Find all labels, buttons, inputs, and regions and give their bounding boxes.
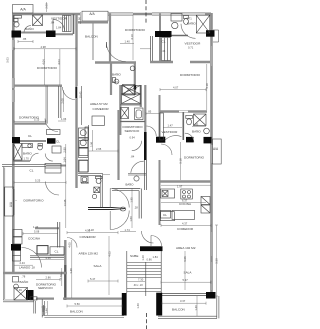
wall vestidor right x73.5 <box>73 14 75 34</box>
svg-text:1.06: 1.06 <box>61 117 67 121</box>
dimline 3.37 balconR <box>162 302 206 305</box>
wall top outer (gray band) <box>12 13 80 16</box>
dimline .85 corridor <box>146 112 160 115</box>
cocina door arc <box>67 238 77 248</box>
svg-text:1.43: 1.43 <box>113 80 119 84</box>
svg-text:2.74: 2.74 <box>59 274 63 280</box>
wall kitchen bottom y273 <box>3 272 67 274</box>
lavatory mid counter <box>128 174 146 176</box>
dimline 1.40 balconR vert <box>196 296 198 316</box>
svg-text:VESTIDOR: VESTIDOR <box>185 42 202 46</box>
svg-text:SERVICIO: SERVICIO <box>38 286 53 290</box>
svg-text:COCINA: COCINA <box>28 237 41 241</box>
stairs side walls <box>127 251 161 293</box>
stairs center divider <box>145 262 147 296</box>
wall y161 bath bottom short <box>13 160 30 162</box>
svg-text:AREA 102 M2: AREA 102 M2 <box>176 246 196 250</box>
column black comedor right wall <box>206 292 216 299</box>
column black top-right <box>206 30 215 37</box>
kitchen CL box <box>50 247 64 255</box>
dimline 5.25 <box>14 181 66 184</box>
wall central y121.5 horiz <box>120 121 145 123</box>
svg-text:CL: CL <box>30 169 34 173</box>
dimline 1.40 top <box>120 42 134 44</box>
dimline 4.37 <box>161 224 211 227</box>
dimline vert x59.9 <box>59 49 61 85</box>
svg-text:COMEDOR: COMEDOR <box>80 235 97 239</box>
dimline 1.45 bathR <box>192 126 206 128</box>
dimline x61.8 vert <box>61 268 63 286</box>
bath TR shower X tall <box>196 15 210 33</box>
kitchen counter left strip <box>85 127 89 140</box>
svg-text:AREA 57 M2: AREA 57 M2 <box>90 102 108 106</box>
svg-text:1.47: 1.47 <box>168 124 174 128</box>
dimline 2.65 mid <box>88 150 118 153</box>
small box on wall bottom-left <box>30 297 37 300</box>
corridor cabinet <box>52 146 61 153</box>
corridor door arc 2 <box>45 154 53 162</box>
wall R balcony top y294.5 <box>162 294 206 296</box>
wall mid small-bath box <box>78 174 103 207</box>
kitchen TL fridge col <box>13 230 22 237</box>
wall thin x46.5 dorm2 right <box>46 86 47 124</box>
bath serv toilet <box>14 284 19 289</box>
bath M sink <box>130 66 135 71</box>
wall mid-bath left x111 <box>110 63 112 96</box>
svg-text:4.04: 4.04 <box>42 59 46 65</box>
svg-text:A/A: A/A <box>213 147 219 151</box>
svg-text:3.37: 3.37 <box>180 299 186 303</box>
svg-text:1.49: 1.49 <box>17 288 23 292</box>
wall R balcony rails <box>158 316 217 318</box>
svg-text:0.94: 0.94 <box>130 136 136 140</box>
sala big door arc <box>106 42 126 62</box>
wall TR vestidor bottom y62 <box>150 61 173 63</box>
column black kitchen left y244 <box>11 244 21 251</box>
wall L mid-bath top y62.5 <box>95 61 136 63</box>
door leaf dark at x76 y87-98 <box>75 87 77 99</box>
dimline 7.30 stair <box>127 280 145 282</box>
wall WC top y189.6 <box>112 189 140 191</box>
svg-text:BAÑO: BAÑO <box>187 20 196 25</box>
dimline x133 vert dorm TC <box>132 15 134 61</box>
svg-text:VESTIDOR: VESTIDOR <box>162 130 179 134</box>
vestidor2 closet hatch <box>160 113 164 140</box>
column black vestidor-R corner <box>156 137 165 143</box>
svg-text:A/A: A/A <box>89 12 95 16</box>
vestidor2 door arc <box>165 133 181 144</box>
svg-text:1.20: 1.20 <box>141 255 145 261</box>
svg-text:COMEDOR: COMEDOR <box>93 107 110 111</box>
svg-text:BALCON: BALCON <box>85 34 98 38</box>
wall corridor left lower <box>144 160 146 190</box>
hall CL closet <box>161 212 175 221</box>
bath L2 door arc <box>31 153 39 161</box>
window left wall lower <box>12 189 15 215</box>
entry door arc upper <box>110 189 129 208</box>
wall dorm1 bottom y85.6 <box>14 84 62 86</box>
A/A platform right exterior <box>213 139 222 164</box>
svg-text:0.71: 0.71 <box>187 17 193 21</box>
svg-text:--: -- <box>15 198 17 202</box>
bath R sink <box>204 128 210 134</box>
svg-text:1.43: 1.43 <box>33 225 39 229</box>
svg-text:1.44: 1.44 <box>44 308 48 314</box>
svg-text:BALCON: BALCON <box>172 307 185 311</box>
wall top window band right <box>152 13 211 15</box>
wall top-middle balcony corner x110 <box>109 14 111 63</box>
wall central column mid x140.8 <box>140 85 142 107</box>
kitchen counter line <box>30 256 64 257</box>
svg-text:CL: CL <box>163 213 167 217</box>
svg-text:5.08: 5.08 <box>34 230 40 234</box>
svg-text:.28: .28 <box>134 205 138 209</box>
wall servicio bottom y299 <box>36 298 54 300</box>
dimline 5.08 <box>23 232 58 235</box>
dimline .85 TL <box>18 40 33 43</box>
column black bath servicio y290 <box>26 290 34 300</box>
appliance fridge col x80 <box>79 141 88 148</box>
svg-text:BAÑO: BAÑO <box>25 26 34 31</box>
dorm R door arc <box>161 144 172 155</box>
svg-text:3.06: 3.06 <box>89 141 93 147</box>
svg-text:COCINA: COCINA <box>179 202 192 206</box>
wall R dorm bottom y181.5 <box>159 180 211 182</box>
dimline 5.37 <box>161 281 211 284</box>
comedor table <box>92 116 104 126</box>
svg-text:1.84: 1.84 <box>153 255 159 259</box>
toilet small mid room <box>120 207 126 211</box>
wall R bath mid x183.3 <box>182 112 184 140</box>
svg-text:4.07: 4.07 <box>173 86 179 90</box>
svg-text:3.48: 3.48 <box>69 268 73 274</box>
column black central dark tick <box>134 85 136 90</box>
servicio door arc 2 <box>132 141 142 151</box>
svg-text:BAÑO: BAÑO <box>112 72 121 77</box>
dimline x185 vert areaR <box>184 251 186 290</box>
servicio toilet X <box>121 108 129 119</box>
tick marks top-left dims <box>47 2 81 24</box>
dimline x206.8 vert <box>206 64 208 110</box>
svg-text:1.84: 1.84 <box>56 26 62 30</box>
servicio door arc 3 <box>131 161 144 173</box>
svg-text:0.71: 0.71 <box>188 45 194 49</box>
column black mid-right y137 <box>186 137 194 143</box>
bath serv shower X <box>14 288 28 301</box>
dimline x112.5 vert <box>108 236 110 295</box>
bath TR door arc <box>181 24 196 39</box>
wall balcony top-middle gray <box>78 21 108 23</box>
svg-text:.85: .85 <box>23 37 27 41</box>
svg-text:13.46: 13.46 <box>63 199 67 206</box>
svg-text:.84: .84 <box>51 21 55 25</box>
svg-text:SALA: SALA <box>94 264 103 268</box>
dimline vert x44.6 <box>44 49 46 85</box>
dorm3 door arc <box>46 182 60 196</box>
wall right outer <box>210 13 213 296</box>
balcony TM divider line <box>92 24 94 61</box>
wall central column left x120.3 <box>119 85 121 135</box>
wall right unit west lower <box>159 160 161 225</box>
wall right unit west x160 top <box>159 14 161 64</box>
drain symbol bottom-left <box>42 305 46 315</box>
wall corridor x59.5 <box>59 86 61 118</box>
svg-text:5.15: 5.15 <box>34 118 40 122</box>
svg-text:1.40: 1.40 <box>194 305 198 311</box>
dimline 1.97 R <box>161 184 211 186</box>
svg-text:5.37: 5.37 <box>183 278 189 282</box>
dashed section line bottom <box>146 313 148 329</box>
bath TL vanity <box>14 16 22 19</box>
wall vertical x58.5 kitchen <box>58 222 60 248</box>
svg-text:1.40: 1.40 <box>125 39 131 43</box>
servicio door arc 1 <box>146 126 156 136</box>
svg-text:10.43: 10.43 <box>79 91 83 98</box>
dimline 1.06 <box>58 120 66 122</box>
kitchen R fridge boxes <box>201 197 210 205</box>
dimline x180.5 vert dormR <box>180 142 182 180</box>
dimline x92.3 vert <box>91 130 93 151</box>
column black right wall y137 <box>204 137 212 144</box>
small bath mid fixtures <box>94 187 100 193</box>
svg-text:CL: CL <box>162 40 166 44</box>
bath TL toilet <box>14 19 19 22</box>
svg-text:.78: .78 <box>22 275 26 279</box>
dimline 1.74 foyer <box>120 231 136 233</box>
svg-text:DORMITORIO: DORMITORIO <box>37 66 58 70</box>
svg-text:1.74: 1.74 <box>125 228 131 232</box>
dimline x65.8 vert long <box>65 144 67 228</box>
wall WC right x140 <box>139 189 141 219</box>
svg-text:CL: CL <box>28 134 32 138</box>
dimline 2.43 <box>14 264 33 266</box>
svg-text:SUBE: SUBE <box>130 254 138 258</box>
dimline x132 vert foyer <box>131 188 133 228</box>
dimline 2.86 <box>36 278 60 281</box>
wall right unit west mid <box>159 95 161 142</box>
dimline 10.43 guide <box>81 86 83 125</box>
svg-text:.84: .84 <box>131 155 135 159</box>
svg-text:LAVADO: LAVADO <box>19 265 31 269</box>
dimline x71.8 vert <box>71 240 73 298</box>
bath TL shower X <box>33 15 43 26</box>
kitchen R counter sink <box>161 189 175 198</box>
svg-text:DORMITORIO: DORMITORIO <box>125 28 146 32</box>
wall balcony-left rail <box>42 299 44 318</box>
A/A box top-middle <box>82 11 108 21</box>
wall TR bath bottom y35.5 <box>165 35 188 37</box>
dimline .46 TR <box>140 48 151 50</box>
top-right balcony ledge <box>213 30 219 42</box>
svg-text:BAÑO: BAÑO <box>126 181 135 186</box>
svg-text:A/A: A/A <box>20 8 26 12</box>
column black top-left bath <box>12 31 22 38</box>
svg-text:1.85: 1.85 <box>130 197 134 203</box>
svg-text:DORMITORIO: DORMITORIO <box>180 73 201 77</box>
vestidor TL closet hatch <box>63 16 72 32</box>
kitchen R counter low <box>172 210 195 219</box>
dimline 1.44 <box>46 301 48 315</box>
svg-text:4.98: 4.98 <box>41 45 47 49</box>
svg-text:0.86: 0.86 <box>147 258 153 262</box>
dashed section line top <box>145 0 147 24</box>
wall y141 left bath top <box>19 140 46 142</box>
hall door arc low <box>142 231 154 243</box>
wall vertical x65.5 servicio/sala <box>64 240 66 265</box>
column black left y137 <box>12 137 20 143</box>
wall dorm2 bottom y123.6 <box>14 122 46 124</box>
svg-text:DORMITORIO: DORMITORIO <box>184 155 205 159</box>
bath R toilet <box>186 115 193 118</box>
wall bottom-left unit bottom <box>3 300 34 302</box>
svg-text:4.37: 4.37 <box>182 221 188 225</box>
wall corner piece bottom-left <box>34 300 36 314</box>
wall entry bar y208.5 <box>88 208 125 210</box>
svg-text:4.10: 4.10 <box>130 34 134 40</box>
vestidor TL door arc <box>53 20 65 32</box>
wall top-left bath bottom y32.5 <box>21 32 46 34</box>
svg-text:4.50: 4.50 <box>85 229 91 233</box>
svg-text:5.47: 5.47 <box>90 277 96 281</box>
svg-text:2.86: 2.86 <box>46 276 52 280</box>
wall central y104.8 horiz <box>120 104 141 106</box>
svg-text:.90: .90 <box>78 17 82 21</box>
kitchen stove box <box>37 246 48 254</box>
dimline 6.37 <box>161 201 206 203</box>
wall left outer <box>12 13 15 166</box>
svg-text:.85: .85 <box>148 110 152 114</box>
bath L2 toilet <box>38 145 43 150</box>
wall y165 full divider <box>2 164 46 166</box>
wall TR dorm bottom y111.5 <box>159 110 207 112</box>
wall left lower outer <box>12 167 15 274</box>
wall mid-bath right x134.8 <box>134 63 136 95</box>
servicio boiler <box>135 108 144 120</box>
kitchen R stove <box>181 189 193 199</box>
bath M shower X <box>123 85 135 96</box>
bath R door arc <box>185 133 194 142</box>
stair X box upper <box>122 86 141 95</box>
svg-text:4.05: 4.05 <box>108 251 112 257</box>
svg-text:COMEDOR: COMEDOR <box>177 227 194 231</box>
dimline 5.47 sala <box>88 280 118 283</box>
svg-text:5.25: 5.25 <box>35 178 41 182</box>
svg-text:4.03: 4.03 <box>57 59 61 65</box>
dimline 4.07 TR <box>160 88 206 91</box>
svg-text:5.03: 5.03 <box>6 57 10 63</box>
svg-text:DORMITORIO: DORMITORIO <box>24 198 45 202</box>
appliance washer stack <box>79 128 89 138</box>
wall vestidor strip x151.5 <box>151 36 153 63</box>
closet TR hatch <box>162 38 171 61</box>
window left wall upper <box>12 90 15 102</box>
wall corridor left dark seg <box>144 132 147 160</box>
svg-text:BAÑO: BAÑO <box>20 279 29 284</box>
dimline 4.50 comedor <box>67 231 118 234</box>
svg-text:.30 x .18: .30 x .18 <box>133 284 143 287</box>
svg-text:1.40: 1.40 <box>136 303 140 309</box>
dimline 1.47 vest2 <box>163 127 182 129</box>
bath L2 shower X <box>14 144 23 161</box>
svg-text:A/A: A/A <box>9 201 13 207</box>
kitchen door arc <box>22 248 42 268</box>
bath L2 vanity <box>22 144 33 148</box>
entry hall door arc <box>151 236 162 247</box>
svg-text:BAÑO: BAÑO <box>192 128 201 133</box>
bath TL door arc <box>24 26 31 33</box>
svg-text:BAÑO: BAÑO <box>23 151 32 156</box>
wall vertical x76.5 (left unit / middle) <box>75 14 77 86</box>
corridor door arc y118 <box>45 119 58 132</box>
entry door arc lower <box>110 211 129 230</box>
bath serv vanity <box>13 277 19 283</box>
bath R shower X <box>194 114 207 126</box>
dimline 5.15 <box>14 120 46 123</box>
column black vestidor left <box>46 31 56 38</box>
stairs treads flight1 <box>127 263 161 278</box>
column black top-center <box>155 31 172 37</box>
svg-text:5.50: 5.50 <box>75 302 81 306</box>
window right wall segs <box>210 46 213 66</box>
dimline 4.46 <box>30 259 64 261</box>
wall black stairwell right <box>156 293 162 316</box>
wall black stairwell left <box>122 293 127 316</box>
stair X box lower <box>122 94 141 104</box>
svg-text:1.45: 1.45 <box>193 123 199 127</box>
svg-text:.28: .28 <box>31 265 35 269</box>
bath TR toilet <box>184 16 189 19</box>
svg-text:AREA 129 M2: AREA 129 M2 <box>79 252 99 256</box>
dimline 2.08 vert <box>63 90 65 112</box>
svg-text:BALCON: BALCON <box>70 310 83 314</box>
A/A box top-left <box>13 5 34 14</box>
bath TR vanity boxes <box>171 14 182 22</box>
dimline 5.50 balcon <box>67 305 122 308</box>
svg-text:4.05: 4.05 <box>68 242 72 248</box>
wall corridor left x145.3 <box>144 85 146 132</box>
svg-text:2.65: 2.65 <box>96 147 102 151</box>
dimline x81.5 vert <box>81 86 83 125</box>
counter edge mid <box>87 125 89 172</box>
wall dorm3 bottom / kitchen top y228 <box>35 227 59 229</box>
svg-text:CL: CL <box>55 249 59 253</box>
outer terrace line bottom-left <box>4 167 5 301</box>
dimline 4.98 <box>14 47 76 50</box>
dorm1 door arc <box>63 87 76 100</box>
kitchen R CL box <box>161 210 171 218</box>
svg-text:2.08: 2.08 <box>61 98 65 104</box>
svg-text:BAÑO: BAÑO <box>81 180 90 185</box>
svg-text:SERVICIO: SERVICIO <box>125 129 140 133</box>
svg-text:.46: .46 <box>162 49 166 53</box>
svg-text:7.30: 7.30 <box>138 277 144 281</box>
svg-text:CL: CL <box>56 140 60 144</box>
closet shelf mid <box>47 130 61 135</box>
svg-text:1.70: 1.70 <box>24 156 30 160</box>
stairs treads flight2 <box>127 289 161 292</box>
dimline x216.5 vert right outer <box>215 225 218 296</box>
column black x47 y138 <box>47 138 56 144</box>
svg-text:VESTIDOR: VESTIDOR <box>51 16 68 20</box>
dorm3 closet <box>45 164 61 174</box>
wall black entry bar <box>140 246 163 251</box>
bath M toilet <box>114 79 119 84</box>
wall comedor right x118.5 <box>117 110 119 180</box>
A/A platform left exterior <box>4 187 14 216</box>
